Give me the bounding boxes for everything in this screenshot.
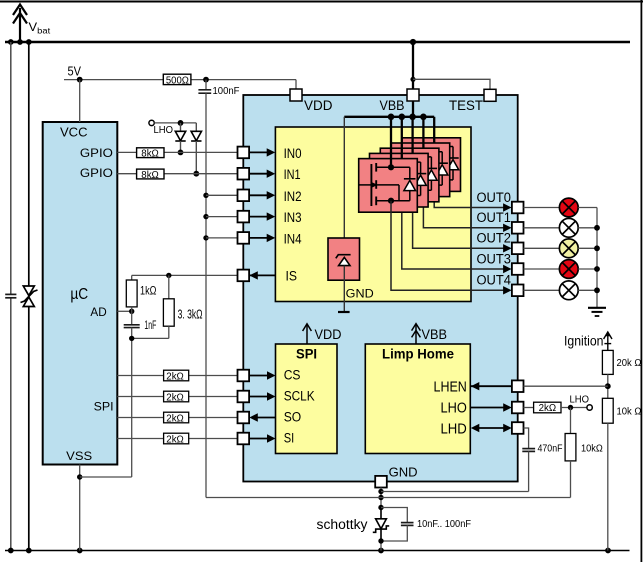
arrow out of SO (257, 417, 276, 419)
wire CS row (117, 375, 163, 377)
diode D1 to IN0 (175, 123, 185, 152)
Q1 drain bar (376, 166, 410, 168)
wire source OUT1 (423, 187, 504, 228)
node IN2 tie (203, 193, 208, 198)
svg-text:500Ω: 500Ω (166, 75, 189, 86)
VDD arrow above SPI block (303, 324, 312, 344)
node GND/470nF return (378, 489, 383, 494)
wire VCC drop (79, 80, 81, 122)
pin square SO (238, 412, 250, 424)
wire lamp common to ground (596, 208, 598, 308)
capacitor 100nF (205, 80, 207, 91)
wire 470nF return (381, 491, 529, 493)
node IN3 tie (203, 214, 208, 219)
lamp L2 (yellow) (559, 239, 578, 258)
wire GPIO to IN1 (117, 173, 136, 175)
wire 5V rail (64, 79, 164, 81)
svg-text:SPI: SPI (296, 347, 317, 362)
wire 470nF to GND (528, 451, 530, 491)
arrow out of IS (249, 271, 257, 279)
MOSFET channel Q4 (391, 143, 450, 197)
power stage block (yellow) (275, 127, 471, 302)
svg-text:10kΩ: 10kΩ (581, 443, 603, 455)
wire source OUT3 (402, 197, 505, 269)
junction dots lamp common (594, 225, 600, 231)
resistor 2k (SI) (164, 433, 189, 444)
schottky diode (373, 508, 389, 542)
svg-text:schottky: schottky (317, 517, 368, 532)
page frame top border (0, 1, 643, 3)
wire LHO row (470, 407, 504, 409)
arrow out OUT4 (503, 286, 512, 294)
MOSFET channel Q5 (back) (402, 138, 461, 192)
wire Vbat top rail (5, 41, 630, 44)
node LHO/10k (568, 405, 573, 410)
MOSFET channel Q3 (380, 148, 439, 202)
wire SO row (117, 417, 163, 419)
zener clamp diode (336, 255, 351, 266)
arrow out OUT2 (503, 244, 512, 252)
svg-text:Ignition: Ignition (564, 333, 604, 349)
svg-text:LHO: LHO (570, 394, 590, 406)
resistor 3.3k (168, 275, 170, 298)
node diode D1 top (178, 120, 184, 126)
wire drain Q5 (433, 117, 435, 143)
Ignition supply arrow (604, 332, 612, 350)
wire source OUT4 (391, 201, 505, 291)
pin square SI (238, 433, 250, 445)
wire lamp L2 return (578, 247, 597, 249)
svg-text:IN0: IN0 (284, 146, 302, 161)
lamp L1 (white) (559, 218, 578, 237)
wire LHD row (477, 427, 505, 429)
svg-text:8kΩ: 8kΩ (141, 149, 159, 160)
wire lamp L4 return (578, 289, 597, 291)
lamp L4 (white) (559, 281, 578, 300)
Q1 gate bar (370, 164, 372, 206)
LHO terminal circle (left) (149, 120, 154, 125)
Q1 gate lead (359, 184, 372, 186)
resistor 8k R1 (137, 148, 164, 158)
svg-text:3. 3kΩ: 3. 3kΩ (178, 307, 203, 321)
lamp L0 (red) (559, 198, 578, 217)
svg-text:IS: IS (286, 269, 298, 284)
svg-text:1nF: 1nF (144, 320, 156, 332)
ground symbol (lamps) (588, 308, 606, 316)
svg-text:IN2: IN2 (284, 189, 302, 204)
svg-text:TEST: TEST (449, 98, 483, 113)
svg-text:VDD: VDD (315, 327, 342, 342)
svg-text:Limp Home: Limp Home (382, 347, 454, 362)
node AD (129, 309, 134, 314)
wire IN2 tie (206, 194, 238, 196)
svg-text:100nF: 100nF (213, 86, 240, 97)
Q1 channel segments (375, 163, 377, 205)
IC main block (blue) (243, 95, 517, 482)
arrow into LHD (471, 424, 480, 432)
svg-text:2kΩ: 2kΩ (166, 392, 184, 403)
resistor 8k R2 (137, 169, 164, 179)
Q1 body arrow (372, 182, 378, 188)
page frame right border (640, 0, 642, 562)
svg-text:OUT1: OUT1 (477, 210, 512, 225)
ground terminal bar (internal GND) (338, 311, 350, 313)
capacitor (input filter, unlabeled) (5, 294, 16, 297)
wire TVS branch upper (28, 42, 30, 286)
wire TVS branch lower (28, 307, 30, 551)
svg-text:470nF: 470nF (538, 443, 563, 455)
wire 1nF to VSS net (131, 328, 133, 477)
wire clamp to GND (343, 266, 345, 312)
wire GPIO to IN0 (117, 151, 136, 153)
svg-text:IN3: IN3 (284, 210, 302, 225)
wire VSS return (80, 476, 132, 478)
Q1 source node (388, 198, 394, 204)
svg-text:5V: 5V (68, 65, 82, 79)
Limp Home sub-block (yellow) (365, 344, 470, 454)
node 500R/100nF (203, 77, 209, 83)
junction dots VBB bus (388, 114, 395, 121)
pin square SCLK (238, 391, 250, 403)
svg-text:1kΩ: 1kΩ (140, 284, 157, 298)
VBB arrow above Limp Home (412, 324, 421, 344)
arrow into LHEN (471, 382, 480, 390)
svg-text:IN4: IN4 (284, 231, 302, 246)
pin square IN3 (238, 211, 250, 223)
wire source OUT0 (from back MOSFET) (434, 182, 504, 208)
wire to VDD pin (295, 80, 297, 89)
pin square IN4 (238, 232, 250, 244)
wire SI row (117, 438, 163, 440)
Q1 body diode (409, 167, 411, 179)
resistor 2k (CS) (164, 370, 189, 381)
svg-text:SO: SO (284, 410, 302, 425)
wire LHO to 2k (524, 407, 534, 409)
pin square OUT0 (512, 202, 524, 214)
wire LHO to diodes (154, 122, 196, 124)
node GND/logic return (378, 495, 383, 500)
wire VBB distribution bus (344, 116, 434, 118)
svg-text:VCC: VCC (60, 124, 88, 139)
wire 20k to 10k (607, 374, 609, 398)
wire drain Q4 (422, 117, 424, 148)
svg-text:SI: SI (284, 431, 295, 446)
svg-text:2kΩ: 2kΩ (166, 434, 184, 445)
TVS bidirectional zener diode (21, 286, 38, 307)
pin square OUT1 (512, 222, 524, 234)
node IS/3.3k (166, 273, 171, 278)
diode D2 to IN1 (191, 123, 201, 174)
MOSFET channel Q2 (370, 153, 429, 207)
wire OUT1 to lamp (524, 227, 560, 229)
wire lamp L0 return (578, 207, 597, 209)
wire SCLK row (117, 396, 163, 398)
svg-text:CS: CS (284, 368, 301, 383)
node LHEN divider (605, 383, 611, 389)
lamp L3 (red) (559, 260, 578, 279)
svg-text:VSS: VSS (66, 449, 92, 463)
wire VBB pin to bus (412, 101, 414, 117)
pin square OUT2 (512, 243, 524, 255)
svg-text:VBB: VBB (380, 98, 405, 113)
wire VBB bus to clamp (343, 117, 345, 255)
svg-text:OUT2: OUT2 (477, 231, 512, 246)
wire OUT2 to lamp (524, 247, 560, 249)
resistor 500 Ohm (163, 74, 191, 84)
node schottky/cap top (378, 505, 383, 510)
pin square IN0 (238, 147, 250, 159)
pin square LHD (512, 422, 524, 434)
svg-text:LHD: LHD (441, 421, 467, 437)
junction dots on Vbat rail (8, 39, 14, 45)
arrow out LHO (503, 403, 512, 411)
svg-text:20k Ω: 20k Ω (617, 357, 642, 369)
pin square TEST (484, 89, 496, 101)
wire LHD to 470nF (524, 428, 529, 449)
svg-text:VDD: VDD (304, 98, 333, 113)
svg-text:LHO: LHO (154, 124, 174, 136)
pin square IN2 (238, 190, 250, 202)
junction dots on bottom rail (8, 548, 14, 554)
wire 10k to ground rail (607, 423, 609, 550)
resistor 1k (131, 275, 133, 280)
arrow out OUT3 (503, 265, 512, 273)
wire lamp L3 return (578, 268, 597, 270)
MOSFET channel Q1 (front, full symbol) (359, 159, 505, 291)
arrow into IN2 (249, 194, 268, 196)
pin square IN1 (238, 168, 250, 180)
svg-text:GND: GND (346, 288, 374, 300)
resistor 20k (602, 350, 613, 374)
LHO terminal circle (right) (587, 405, 592, 410)
arrow into CS (249, 375, 268, 377)
capacitor 10nF..100nF (381, 508, 407, 523)
arrow into IN3 (249, 216, 268, 218)
wire to TEST pin (413, 79, 490, 89)
wire GND pin down (380, 488, 382, 551)
resistor 2k (LHO) (534, 402, 561, 413)
pin square LHEN (512, 380, 524, 392)
Q1 source bar (376, 200, 410, 202)
pin square GND (375, 476, 387, 488)
pin square IS (238, 270, 250, 282)
wire OUT3 to lamp (524, 268, 560, 270)
svg-text:AD: AD (90, 305, 107, 319)
wire 2k to LHO terminal (561, 407, 587, 409)
wire 3.3k bottom to 1nF bottom (132, 337, 169, 339)
svg-text:GPIO: GPIO (80, 148, 113, 160)
svg-text:VBB: VBB (422, 327, 448, 342)
svg-text:IN1: IN1 (284, 167, 301, 182)
wire drain Q3 (411, 117, 413, 154)
arrow out OUT0 (503, 203, 512, 211)
arrow into IN1 (249, 173, 268, 175)
resistor 2k (SCLK) (164, 391, 189, 402)
wire logic ground return (206, 497, 571, 499)
SPI sub-block (yellow) (276, 344, 338, 454)
node TEST branch (410, 77, 415, 82)
svg-text:SPI: SPI (94, 400, 114, 414)
svg-text:2kΩ: 2kΩ (166, 413, 184, 424)
svg-text:2kΩ: 2kΩ (166, 371, 184, 382)
pin square OUT4 (512, 285, 524, 297)
Q1 drain node (388, 164, 394, 170)
pin square OUT3 (512, 263, 524, 275)
svg-text:OUT0: OUT0 (477, 190, 512, 205)
pin square VBB (407, 89, 419, 101)
resistor 10k (divider) (602, 398, 613, 423)
svg-text:2kΩ: 2kΩ (539, 402, 557, 414)
wire left capacitor branch upper (10, 42, 12, 294)
svg-text:GND: GND (389, 465, 418, 480)
svg-text:OUT4: OUT4 (477, 273, 512, 288)
node D1/IN0 (178, 150, 184, 156)
pin square LHO (512, 402, 524, 414)
pin square CS (238, 370, 250, 382)
wire OUT4 to lamp (524, 289, 560, 291)
svg-text:GPIO: GPIO (80, 168, 113, 180)
wire LHEN row (471, 385, 512, 387)
svg-text:µC: µC (70, 286, 88, 303)
svg-text:10k Ω: 10k Ω (617, 406, 642, 418)
capacitor 470nF (522, 449, 535, 452)
arrow into SCLK (249, 396, 268, 398)
wire drain Q1 (390, 117, 392, 168)
wire lamp L1 return (578, 227, 597, 229)
svg-text:V: V (29, 22, 38, 34)
arrow into IN4 (249, 237, 268, 239)
wire VBB drop from rail (412, 42, 414, 89)
arrow into IN0 (249, 151, 268, 153)
wire source OUT2 (413, 192, 505, 248)
node IN4 tie (203, 235, 208, 240)
node 5V/VCC (77, 77, 83, 83)
pin square VDD (290, 89, 302, 101)
wire IN3 tie (206, 216, 238, 218)
wire left capacitor branch lower (10, 298, 12, 550)
arrow out OUT1 (503, 224, 512, 232)
wire bottom ground rail (5, 550, 630, 552)
wire IS row (132, 274, 238, 276)
arrow into SI (249, 438, 268, 440)
microcontroller block uC (blue) (43, 122, 118, 465)
Vbat supply arrow (13, 5, 27, 43)
node VSS return (77, 474, 82, 479)
wire 100nF to ground net (vertical) (205, 93, 207, 497)
svg-text:10nF.. 100nF: 10nF.. 100nF (417, 518, 471, 530)
wire OUT0 to lamp (524, 207, 560, 209)
arrow out LHD (503, 424, 512, 432)
clamp diode box (red) (328, 238, 360, 280)
svg-text:LHEN: LHEN (434, 380, 467, 396)
capacitor 1nF (124, 325, 140, 328)
svg-text:bat: bat (37, 27, 51, 36)
svg-text:SCLK: SCLK (284, 389, 315, 404)
node D2/IN1 (193, 171, 199, 177)
wire AD (117, 310, 131, 312)
node schottky/cap bottom (378, 538, 383, 543)
wire LHEN to divider (524, 385, 608, 387)
svg-text:8kΩ: 8kΩ (141, 170, 159, 181)
svg-text:OUT3: OUT3 (477, 251, 512, 266)
resistor 2k (SO) (164, 412, 189, 423)
wire drain Q2 (401, 117, 403, 159)
svg-text:LHO: LHO (441, 400, 467, 416)
resistor 10k (LHO pulldown) (570, 408, 572, 434)
wire IN4 tie (206, 237, 238, 239)
wire VSS to ground rail (79, 465, 81, 551)
